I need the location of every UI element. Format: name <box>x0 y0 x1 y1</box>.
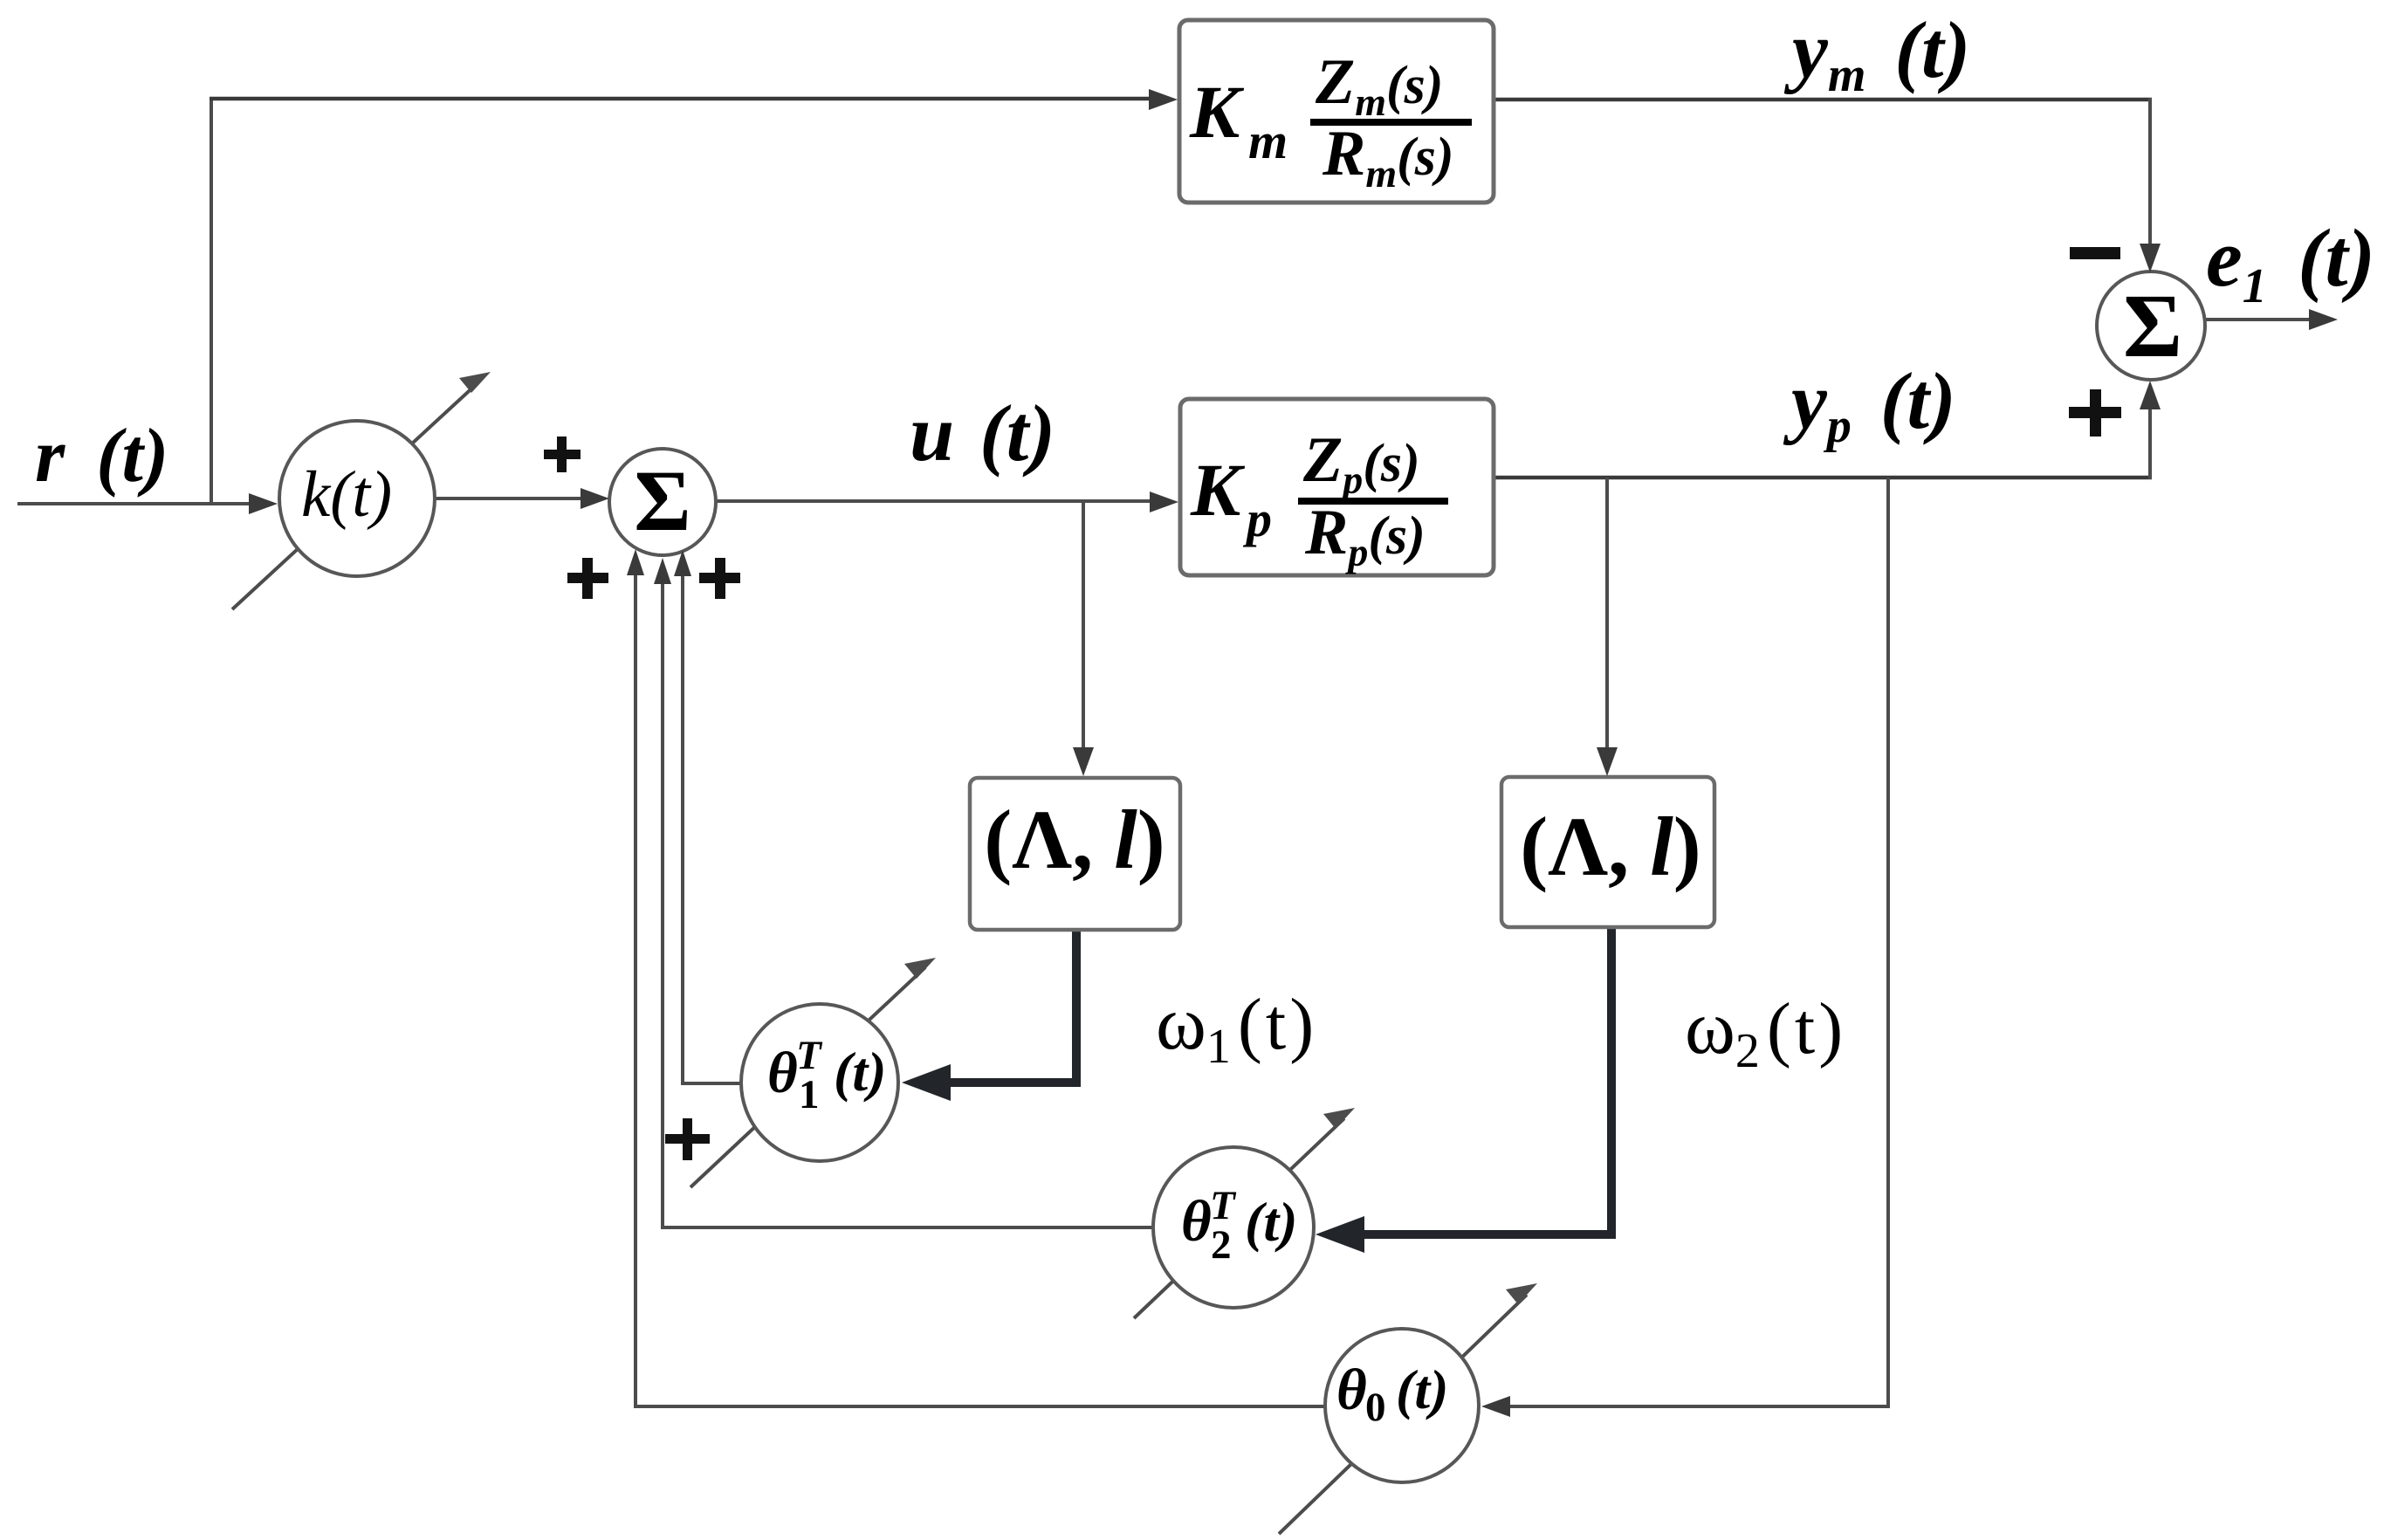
wire k(t) to summer <box>434 497 597 500</box>
label theta2 <box>1181 1183 1297 1268</box>
wire yp vertical up to summer2 <box>2148 393 2152 479</box>
sign plus below summer1 left <box>567 558 608 599</box>
arrowhead theta1 into summer1 <box>674 550 691 576</box>
svg-text:Σ: Σ <box>634 452 690 549</box>
summer circle 1 <box>609 449 716 555</box>
arrowhead theta2 into summer1 <box>654 558 671 584</box>
svg-text:(t): (t) <box>834 1041 886 1103</box>
wire e1 output <box>2204 318 2322 321</box>
svg-text:θ: θ <box>1181 1189 1212 1254</box>
arrowhead into summer1 <box>581 488 609 509</box>
wire yp junction down to filter2 <box>1605 478 1609 764</box>
svg-text:(Λ, l): (Λ, l) <box>984 793 1165 886</box>
arrowhead into theta0 <box>1481 1396 1510 1417</box>
wire Km output ym <box>1494 98 2152 102</box>
wire u junction down to filter1 <box>1082 501 1085 763</box>
arrowhead into Kp <box>1150 492 1178 512</box>
sign minus at summer2 <box>2070 247 2120 259</box>
svg-text:yp (t): yp (t) <box>1783 356 1956 453</box>
summer circle 2 <box>2097 272 2205 380</box>
wire Kp output yp <box>1494 476 2152 480</box>
block Kp plant <box>1180 399 1494 575</box>
adjust circle theta2 <box>1153 1147 1314 1308</box>
gain circle k(t) <box>279 421 435 576</box>
thick arrowhead into theta2 <box>1316 1216 1364 1253</box>
wire theta0 output feedback <box>636 566 1327 1406</box>
arrowhead e1 output <box>2309 309 2338 330</box>
adjust circle theta0 <box>1325 1329 1479 1482</box>
wire r(t) input <box>17 502 266 505</box>
gain arrow through theta0 <box>1279 1283 1537 1534</box>
svg-text:u (t): u (t) <box>910 388 1055 478</box>
sign plus below summer1 right <box>699 558 740 599</box>
svg-text:r (t): r (t) <box>35 414 168 498</box>
svg-text:(t): (t) <box>1396 1358 1448 1420</box>
label Kp fraction <box>1190 424 1448 574</box>
thick arrowhead into theta1 <box>902 1064 951 1101</box>
svg-text:0: 0 <box>1365 1385 1386 1430</box>
thick wire omega1 from filter1 to theta1 <box>918 928 1076 1083</box>
gain arrow through k(t) <box>232 372 491 609</box>
svg-text:θ: θ <box>767 1041 798 1105</box>
svg-text:(Λ, l): (Λ, l) <box>1520 800 1700 893</box>
adjust circle theta1 <box>741 1004 898 1161</box>
svg-text:θ: θ <box>1336 1358 1367 1422</box>
gain arrow through theta2 <box>1134 1108 1355 1318</box>
sign plus near theta1 feedback <box>665 1118 710 1160</box>
block filter2 (Lambda,l) <box>1501 777 1714 927</box>
block filter1 (Lambda,l) <box>970 778 1180 930</box>
wire ym vertical down to summer2 <box>2148 98 2152 258</box>
svg-text:ym (t): ym (t) <box>1783 5 1970 102</box>
label theta1 <box>767 1033 886 1117</box>
wire theta1 output feedback <box>683 566 743 1083</box>
svg-text:K: K <box>1190 448 1246 532</box>
arrowhead into summer2 top <box>2140 244 2161 272</box>
label Km fraction <box>1189 46 1472 196</box>
svg-text:Σ: Σ <box>2123 276 2182 376</box>
svg-text:m: m <box>1248 113 1288 169</box>
svg-text:1: 1 <box>799 1072 820 1117</box>
block Km reference model <box>1179 20 1494 203</box>
svg-text:K: K <box>1189 70 1245 154</box>
svg-text:p: p <box>1242 491 1272 547</box>
sign plus before summer1 input <box>544 437 581 472</box>
thick wire omega2 from filter2 to theta2 <box>1332 925 1611 1234</box>
sign plus at summer2 <box>2069 389 2121 437</box>
arrowhead theta0 into summer1 <box>627 549 644 575</box>
wire branch vertical to model <box>210 97 213 504</box>
wire theta2 output feedback <box>663 572 1155 1227</box>
wire u(t) summer to Kp <box>716 499 1165 503</box>
wire yp junction down right side <box>1497 478 1888 1406</box>
svg-text:2: 2 <box>1211 1222 1232 1268</box>
arrowhead into k(t) <box>249 493 278 514</box>
arrowhead into summer2 bottom <box>2140 381 2161 409</box>
arrowhead into filter2 <box>1597 747 1618 776</box>
arrowhead into Km <box>1149 89 1178 110</box>
svg-text:k(t): k(t) <box>301 458 392 531</box>
svg-text:e1 (t): e1 (t) <box>2206 213 2375 313</box>
gain arrow through theta1 <box>690 958 936 1187</box>
label theta0 <box>1336 1358 1448 1430</box>
svg-text:(t): (t) <box>1245 1191 1297 1253</box>
wire top horizontal to Km <box>210 97 1163 101</box>
arrowhead into filter1 <box>1073 747 1094 776</box>
